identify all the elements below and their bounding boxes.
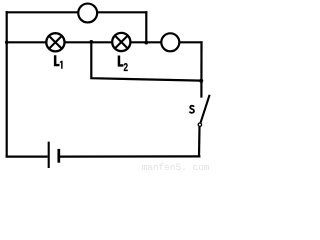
wire: branch from L1/L2 junction down [91,42,201,81]
lamp L1: X cross [49,36,61,48]
wire: right vertical upper (row to switch top) [200,41,202,97]
wire: middle row horizontal (L1, L2, meter row) [6,41,203,43]
wire: vertical drop from top branch to middle row [145,11,147,43]
node: junction dot top-branch joins middle row [144,41,148,45]
switch S: open blade [200,95,209,123]
wire: top horizontal (battery top branch to meter) [6,11,148,13]
battery: long thin plate (positive) [48,142,50,168]
lamp L2: circle body [112,33,130,51]
wire: bottom horizontal right of battery [60,155,201,158]
wire: bottom horizontal left of battery [6,155,48,157]
switch S: pivot circle [198,123,201,126]
lamp L2: X cross [115,36,127,48]
label S (switch) [190,106,194,113]
node: junction dot left end of middle row [5,41,9,45]
node: junction dot between L1 and L2 [89,40,93,44]
label L2 [118,56,128,74]
battery: short thick plate (negative) [57,149,60,163]
meter U2: blank circle on middle row [161,33,179,51]
lamp L1: circle body [46,33,64,51]
svg-text:2: 2 [124,62,129,74]
wire: left vertical side [6,11,8,157]
node: junction dot branch joins right vertical [199,79,203,83]
meter U1: blank circle on top branch [78,4,97,23]
wire: right vertical lower (switch pivot to bottom) [198,126,201,157]
label L1 [54,55,63,68]
svg-text:manfen5. com: manfen5. com [142,162,210,172]
